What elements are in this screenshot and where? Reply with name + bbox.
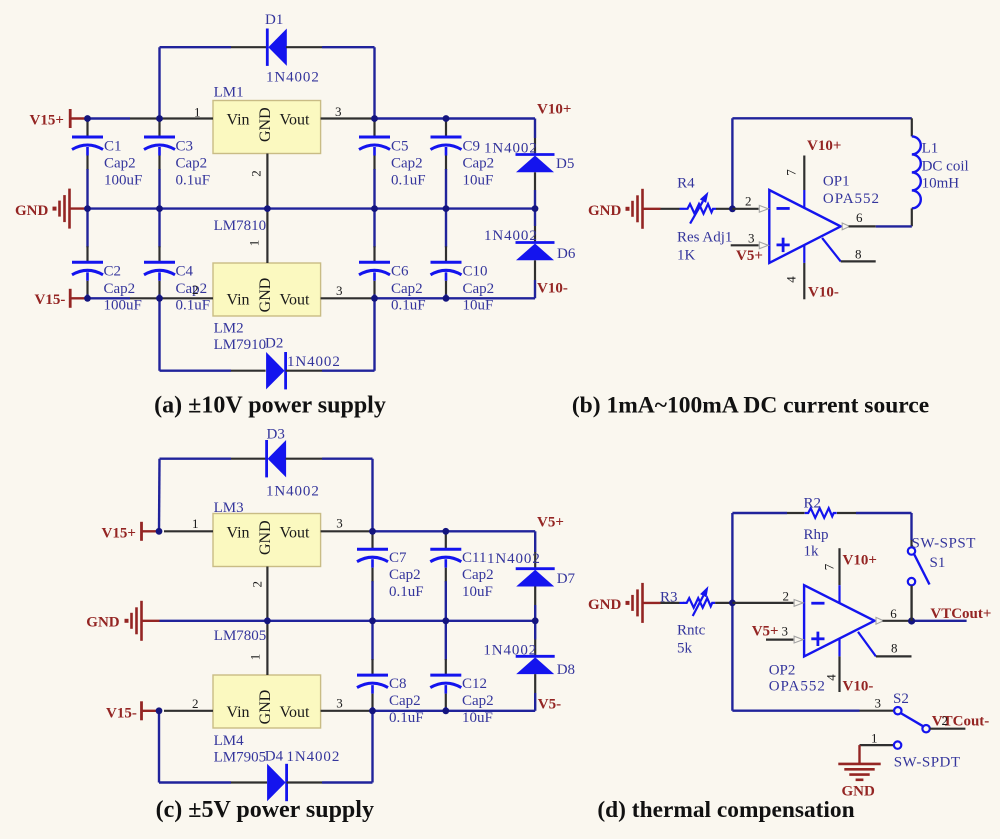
capacitor C4	[144, 209, 210, 314]
svg-text:0.1uF: 0.1uF	[176, 172, 211, 188]
svg-text:1N4002: 1N4002	[266, 484, 320, 500]
svg-text:GND: GND	[257, 278, 274, 313]
net label VTCout-	[932, 713, 990, 730]
svg-text:OP1: OP1	[823, 174, 850, 190]
svg-text:(a) ±10V power supply: (a) ±10V power supply	[154, 392, 386, 418]
wire to S2 (d)	[732, 710, 859, 712]
svg-text:1N4002: 1N4002	[484, 141, 538, 157]
svg-text:8: 8	[891, 640, 898, 655]
svg-text:C12: C12	[462, 676, 487, 692]
svg-text:V10+: V10+	[807, 138, 841, 154]
svg-text:D4: D4	[265, 748, 284, 764]
svg-text:Vin: Vin	[227, 525, 250, 542]
svg-text:4: 4	[823, 674, 838, 681]
svg-text:2: 2	[192, 696, 199, 711]
svg-text:0.1uF: 0.1uF	[176, 298, 211, 314]
svg-text:LM7905: LM7905	[214, 749, 267, 765]
regulator U LM2 (LM7910)	[130, 209, 375, 353]
op-amp OP2 (OPA552)	[769, 585, 875, 694]
svg-text:(c) ±5V power supply: (c) ±5V power supply	[156, 797, 374, 823]
regulator U LM3 (LM7805)	[164, 500, 373, 644]
capacitor C10	[431, 209, 495, 314]
diode D4 (1N4002)	[159, 711, 373, 801]
svg-text:10uF: 10uF	[462, 710, 493, 726]
svg-text:Vout: Vout	[280, 525, 310, 542]
svg-text:1: 1	[871, 731, 878, 746]
capacitor C6	[359, 209, 426, 314]
power port GND (d)	[588, 583, 661, 623]
svg-text:Cap2: Cap2	[176, 156, 208, 172]
svg-text:GND: GND	[588, 597, 622, 613]
net label V10-	[537, 281, 568, 297]
svg-text:VTCout-: VTCout-	[932, 713, 990, 729]
svg-text:Cap2: Cap2	[389, 567, 421, 583]
svg-text:0.1uF: 0.1uF	[389, 584, 424, 600]
svg-text:D2: D2	[265, 336, 283, 352]
wire V5- rail (c)	[373, 710, 536, 712]
svg-text:R3: R3	[660, 589, 678, 605]
junction dots (c)	[156, 528, 539, 714]
wire L1 to pin 6 (b)	[876, 225, 912, 227]
caption (a)	[154, 392, 386, 418]
pin 6 of OP1	[842, 210, 876, 230]
caption (c)	[156, 797, 374, 823]
svg-text:Cap2: Cap2	[463, 156, 495, 172]
svg-text:7: 7	[783, 169, 798, 176]
svg-text:GND: GND	[86, 615, 120, 631]
svg-text:V10-: V10-	[843, 679, 874, 695]
svg-text:OP2: OP2	[769, 663, 796, 679]
svg-text:V10+: V10+	[537, 101, 571, 117]
pin 2 of OP2	[732, 589, 803, 607]
svg-text:Cap2: Cap2	[104, 281, 136, 297]
svg-text:1: 1	[194, 104, 201, 119]
svg-text:C9: C9	[463, 138, 481, 154]
svg-text:LM2: LM2	[214, 320, 244, 336]
svg-text:0.1uF: 0.1uF	[391, 298, 426, 314]
svg-text:1N4002: 1N4002	[484, 228, 538, 244]
svg-text:SW-SPST: SW-SPST	[912, 536, 976, 552]
svg-text:1: 1	[247, 654, 262, 661]
svg-text:V5+: V5+	[736, 248, 763, 264]
svg-text:R2: R2	[804, 495, 822, 511]
pin 8 of OP2	[858, 632, 912, 657]
inductor L1 (DC coil 10mH)	[912, 118, 969, 226]
svg-text:V10-: V10-	[808, 285, 839, 301]
svg-text:2: 2	[248, 170, 263, 177]
pin 8 of OP1	[822, 238, 876, 262]
diode D6 (1N4002)	[484, 209, 576, 299]
capacitor C1	[72, 119, 142, 209]
wire GND-to-R3 (d)	[661, 602, 680, 604]
pin 7 of OP1 with net label V10+	[783, 138, 841, 209]
svg-text:1N4002: 1N4002	[487, 551, 541, 567]
power port GND (b)	[588, 189, 661, 229]
pin 6 of OP2 with net label VTCout+	[876, 586, 991, 625]
svg-text:2: 2	[192, 282, 199, 297]
svg-text:10mH: 10mH	[922, 176, 960, 192]
svg-text:C11: C11	[462, 550, 486, 566]
wire V5+ rail (c)	[373, 530, 536, 532]
svg-text:3: 3	[335, 104, 342, 119]
pin 4 of OP2 with net label V10-	[823, 639, 873, 695]
svg-text:3: 3	[336, 283, 343, 298]
capacitor C5	[359, 119, 426, 209]
pin 7 of OP2 with net label V10+	[821, 548, 876, 603]
potentiometer R4 (Res Adj1 1K)	[677, 176, 732, 264]
svg-text:Cap2: Cap2	[389, 693, 421, 709]
svg-text:10uF: 10uF	[463, 172, 494, 188]
svg-text:C2: C2	[104, 264, 122, 280]
svg-text:Cap2: Cap2	[462, 693, 494, 709]
svg-text:3: 3	[336, 515, 343, 530]
svg-text:1: 1	[192, 516, 199, 531]
svg-text:Cap2: Cap2	[104, 156, 136, 172]
svg-text:Cap2: Cap2	[391, 281, 423, 297]
svg-text:7: 7	[821, 563, 836, 570]
pin 3 of OP2 with net label V5+	[752, 623, 803, 643]
svg-text:0.1uF: 0.1uF	[391, 172, 426, 188]
svg-text:Vout: Vout	[280, 704, 310, 721]
power port GND (c)	[86, 601, 159, 641]
wire bottom rail (a)	[88, 297, 536, 299]
svg-text:D1: D1	[265, 12, 283, 28]
svg-text:1N4002: 1N4002	[287, 749, 341, 765]
svg-text:D7: D7	[557, 571, 576, 587]
net label V10+	[537, 101, 571, 117]
svg-text:6: 6	[890, 606, 897, 621]
svg-text:Vout: Vout	[280, 292, 310, 309]
svg-text:2: 2	[783, 589, 790, 604]
svg-text:V15+: V15+	[102, 525, 136, 541]
svg-text:(d) thermal compensation: (d) thermal compensation	[597, 797, 854, 823]
svg-text:Vout: Vout	[280, 112, 310, 129]
resistor R2 (Rhp 1k)	[732, 495, 911, 559]
wire feedback loop (b)	[732, 118, 911, 209]
svg-text:L1: L1	[922, 140, 939, 156]
diode D8 (1N4002)	[483, 621, 575, 711]
diode D3 (1N4002)	[159, 427, 373, 532]
pin 3 of OP1 with net label V5+	[731, 230, 769, 263]
svg-text:C6: C6	[391, 264, 409, 280]
thermistor R3 (Rntc 5k)	[660, 586, 732, 657]
svg-text:Cap2: Cap2	[463, 281, 495, 297]
junction dots (a)	[84, 115, 538, 302]
svg-text:2: 2	[249, 581, 264, 588]
svg-text:LM1: LM1	[214, 85, 244, 101]
svg-text:100uF: 100uF	[104, 172, 142, 188]
svg-text:V15-: V15-	[35, 292, 66, 308]
svg-text:Vin: Vin	[227, 112, 250, 129]
svg-text:GND: GND	[257, 690, 274, 725]
net label V5-	[538, 697, 561, 713]
svg-text:LM7805: LM7805	[214, 628, 266, 644]
wire GND-to-R4 (b)	[661, 208, 680, 210]
capacitor C9	[431, 119, 495, 209]
svg-text:LM4: LM4	[214, 733, 245, 749]
svg-text:C10: C10	[463, 264, 488, 280]
svg-text:8: 8	[855, 247, 862, 262]
pin 2 of OP1	[732, 194, 768, 213]
power port V15- (c)	[106, 701, 159, 721]
svg-text:C7: C7	[389, 550, 407, 566]
capacitor C3	[144, 119, 210, 209]
svg-text:S1: S1	[930, 555, 946, 571]
caption (d)	[597, 797, 854, 823]
svg-text:10uF: 10uF	[463, 298, 494, 314]
regulator U LM1 (LM7810)	[130, 85, 375, 234]
svg-text:D6: D6	[557, 246, 576, 262]
diode D7 (1N4002)	[487, 531, 576, 621]
power port V15+ (a)	[30, 109, 88, 128]
power port V15+ (c)	[102, 522, 160, 542]
svg-text:3: 3	[875, 695, 882, 710]
svg-text:V10+: V10+	[843, 553, 877, 569]
diode D2 (1N4002)	[160, 298, 375, 389]
svg-text:Rhp: Rhp	[804, 527, 829, 543]
svg-text:DC coil: DC coil	[922, 159, 969, 175]
svg-text:V15-: V15-	[106, 705, 137, 721]
svg-text:1N4002: 1N4002	[266, 69, 320, 85]
wire GND rail (a)	[88, 207, 536, 209]
svg-text:5k: 5k	[677, 641, 693, 657]
svg-text:1N4002: 1N4002	[483, 643, 537, 659]
svg-text:GND: GND	[257, 107, 274, 142]
capacitor C12	[430, 621, 493, 726]
svg-text:3: 3	[782, 623, 789, 638]
svg-text:S2: S2	[893, 691, 909, 707]
svg-text:OPA552: OPA552	[823, 191, 880, 207]
svg-text:2: 2	[942, 713, 949, 728]
svg-text:V5+: V5+	[752, 623, 779, 639]
svg-text:1K: 1K	[677, 247, 696, 263]
svg-text:1: 1	[246, 240, 261, 247]
svg-text:R4: R4	[677, 176, 695, 192]
svg-text:C8: C8	[389, 676, 407, 692]
power port GND (a)	[15, 189, 88, 229]
diode D1 (1N4002)	[160, 12, 375, 119]
svg-text:Vin: Vin	[227, 292, 250, 309]
pin 4 of OP1 with net label V10-	[783, 245, 838, 301]
svg-text:3: 3	[748, 230, 755, 245]
capacitor C8	[357, 621, 424, 726]
svg-text:D5: D5	[556, 156, 574, 172]
junction node (d)	[729, 600, 736, 607]
power port V15- (a)	[35, 289, 88, 308]
switch S2 (SW-SPDT)	[860, 691, 966, 771]
svg-text:4: 4	[783, 276, 798, 283]
op-amp OP1 (OPA552)	[769, 174, 880, 263]
svg-text:3: 3	[336, 695, 343, 710]
svg-text:2: 2	[745, 194, 752, 209]
junction node (b)	[729, 205, 736, 212]
wire GND rail (c)	[160, 620, 536, 622]
svg-text:Cap2: Cap2	[391, 156, 423, 172]
svg-text:10uF: 10uF	[462, 584, 493, 600]
svg-text:Rntc: Rntc	[677, 622, 706, 638]
svg-text:V10-: V10-	[537, 281, 568, 297]
regulator U LM4 (LM7905)	[164, 621, 373, 766]
svg-text:1N4002: 1N4002	[287, 354, 341, 370]
capacitor C11	[430, 531, 493, 621]
svg-text:D8: D8	[557, 662, 575, 678]
svg-text:C5: C5	[391, 138, 409, 154]
wire vertical node (d)	[731, 513, 733, 711]
ground symbol GND (d)	[838, 745, 880, 799]
caption (b)	[572, 392, 929, 418]
switch S1 (SW-SPST)	[908, 513, 976, 621]
svg-text:V15+: V15+	[30, 112, 64, 128]
svg-text:C4: C4	[176, 264, 194, 280]
svg-text:SW-SPDT: SW-SPDT	[894, 754, 961, 770]
capacitor C2	[72, 209, 142, 314]
svg-text:GND: GND	[257, 520, 274, 555]
svg-text:Vin: Vin	[227, 704, 250, 721]
svg-text:1k: 1k	[804, 543, 820, 559]
svg-text:V5-: V5-	[538, 697, 561, 713]
svg-text:6: 6	[856, 210, 863, 225]
wire top rail (a)	[88, 117, 536, 119]
svg-text:V5+: V5+	[537, 514, 564, 530]
svg-text:GND: GND	[588, 203, 622, 219]
svg-text:C3: C3	[176, 138, 194, 154]
svg-text:OPA552: OPA552	[769, 678, 826, 694]
svg-text:LM7810: LM7810	[214, 218, 267, 234]
svg-text:LM3: LM3	[214, 500, 244, 516]
svg-text:(b) 1mA~100mA DC current sourc: (b) 1mA~100mA DC current source	[572, 392, 929, 418]
net label V5+	[537, 514, 564, 530]
svg-text:VTCout+: VTCout+	[930, 606, 991, 622]
svg-text:C1: C1	[104, 138, 122, 154]
diode D5 (1N4002)	[484, 119, 574, 209]
svg-text:Cap2: Cap2	[462, 567, 494, 583]
svg-text:100uF: 100uF	[104, 298, 142, 314]
svg-text:Res Adj1: Res Adj1	[677, 229, 732, 245]
svg-text:D3: D3	[267, 427, 285, 443]
svg-text:0.1uF: 0.1uF	[389, 710, 424, 726]
svg-text:GND: GND	[15, 203, 49, 219]
capacitor C7	[357, 531, 424, 621]
svg-text:LM7910: LM7910	[214, 337, 267, 353]
